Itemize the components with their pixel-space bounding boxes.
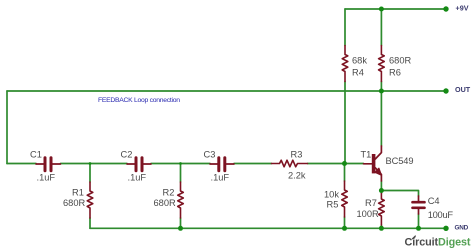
terminal +9V dot <box>443 6 448 11</box>
resistor R3 <box>272 160 308 167</box>
wire R5 branch x=344.5 <box>344 164 346 229</box>
wire left feedback drop (7,91)-(7,163.5) <box>6 91 8 164</box>
wire R4 branch vertical (345,9)-(345,163.5) <box>344 9 346 164</box>
transistor Q1 T1 BC549 <box>364 146 382 181</box>
node emitter / R7 / C4 <box>379 188 384 193</box>
resistor R7 <box>379 193 385 225</box>
wire emitter to node x=381.4 <box>380 181 382 191</box>
svg-text:C3: C3 <box>204 150 216 160</box>
resistor R6 <box>379 46 385 82</box>
svg-text:R7: R7 <box>365 198 377 208</box>
svg-text:10k: 10k <box>324 190 339 200</box>
svg-text:R5: R5 <box>327 200 339 210</box>
wire R7 branch x=381.4 <box>380 191 382 229</box>
terminal OUT dot <box>443 88 448 93</box>
wire R1 branch x=90 <box>89 164 91 229</box>
node base / R4 / R5 <box>342 161 347 166</box>
svg-text:C1: C1 <box>30 150 42 160</box>
wire OUT / feedback line y=91 <box>7 90 446 92</box>
svg-text:2.2k: 2.2k <box>288 171 306 181</box>
svg-text:CírcuitDigest: CírcuitDigest <box>405 237 471 249</box>
svg-text:680R: 680R <box>154 198 177 208</box>
svg-text:680R: 680R <box>389 56 412 66</box>
svg-text:+9V: +9V <box>456 4 469 13</box>
node top rail / R6 <box>379 7 384 12</box>
svg-text:R2: R2 <box>163 188 175 198</box>
svg-text:R3: R3 <box>291 150 303 160</box>
node rail R5 <box>342 226 347 231</box>
node rail R7 <box>379 226 384 231</box>
svg-text:.1uF: .1uF <box>37 173 56 183</box>
resistor R4 <box>342 46 348 82</box>
node rail R2 <box>178 226 183 231</box>
resistor R2 <box>178 182 184 218</box>
capacitor C4 <box>413 196 425 214</box>
svg-text:68k: 68k <box>352 56 367 66</box>
svg-text:R6: R6 <box>389 68 401 78</box>
svg-text:100R: 100R <box>357 209 380 219</box>
svg-text:.1uF: .1uF <box>211 173 230 183</box>
node OUT / collector <box>379 89 384 94</box>
svg-text:100uF: 100uF <box>428 210 454 220</box>
wire top +9V rail <box>345 8 446 10</box>
capacitor C3 <box>210 158 234 171</box>
svg-text:C2: C2 <box>121 150 133 160</box>
wire R6/collector vertical (381,9)-(381,146) <box>380 9 382 146</box>
svg-text:.1uF: .1uF <box>128 173 147 183</box>
svg-text:R1: R1 <box>72 188 84 198</box>
terminal GND dot <box>443 226 448 231</box>
capacitor C1 <box>36 158 61 171</box>
capacitor C2 <box>127 158 151 171</box>
svg-text:680R: 680R <box>63 198 86 208</box>
CircuitDigest logo accent <box>412 236 415 239</box>
wire bottom ground rail y=228 <box>90 227 446 229</box>
node R1 tap <box>89 162 92 165</box>
svg-text:T1: T1 <box>361 150 372 160</box>
wire R2 branch x=180.5 <box>180 164 182 229</box>
node R2 tap <box>179 162 182 165</box>
resistor R5 <box>342 181 348 217</box>
resistor R1 <box>87 182 93 218</box>
wire emitter node to C4 <box>381 191 418 229</box>
wire signal line segments y=163.5 <box>7 163 364 165</box>
svg-text:GND: GND <box>455 225 469 232</box>
svg-text:BC549: BC549 <box>386 156 414 166</box>
node junction dots <box>89 6 449 231</box>
svg-text:OUT: OUT <box>455 85 471 94</box>
svg-text:C4: C4 <box>428 196 440 206</box>
svg-text:R4: R4 <box>352 68 364 78</box>
node rail C4 <box>416 226 421 231</box>
svg-text:FEEDBACK Loop connection: FEEDBACK Loop connection <box>98 97 180 104</box>
